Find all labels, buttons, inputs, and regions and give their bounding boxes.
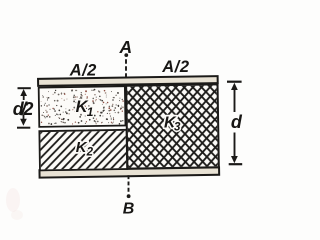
label K1 (76, 98, 94, 119)
label K2 (76, 139, 94, 159)
label B (123, 201, 135, 218)
label K3 (164, 115, 181, 134)
dielectric slab K1 (stippled) (39, 86, 126, 127)
dielectric slab K2 (diagonal hatched) (39, 130, 127, 171)
dimension arrow d (right) (227, 82, 242, 165)
svg-text:A: A (119, 37, 133, 57)
label A (119, 37, 133, 57)
svg-text:A/2: A/2 (161, 58, 189, 76)
svg-text:d/2: d/2 (13, 99, 34, 119)
svg-text:A/2: A/2 (69, 61, 97, 79)
dimension arrow d/2 (left) (17, 88, 31, 128)
top capacitor plate (38, 76, 218, 86)
dashed axis line above plate (to A) (124, 53, 128, 77)
dashed axis line below plate (to B) (127, 175, 131, 198)
svg-text:d: d (231, 112, 243, 132)
label A/2 (left half) (69, 61, 97, 79)
label d (231, 112, 243, 132)
svg-text:1: 1 (87, 105, 94, 119)
faint scan smudge bottom-left (6, 188, 23, 220)
dielectric slab K3 (cross-hatched) (126, 84, 219, 168)
scan background (0, 0, 253, 236)
label d/2 (13, 99, 34, 119)
svg-text:B: B (123, 201, 135, 218)
bottom capacitor plate (39, 167, 219, 177)
label A/2 (right half) (161, 58, 189, 76)
svg-text:2: 2 (86, 147, 94, 159)
svg-text:3: 3 (174, 122, 181, 134)
